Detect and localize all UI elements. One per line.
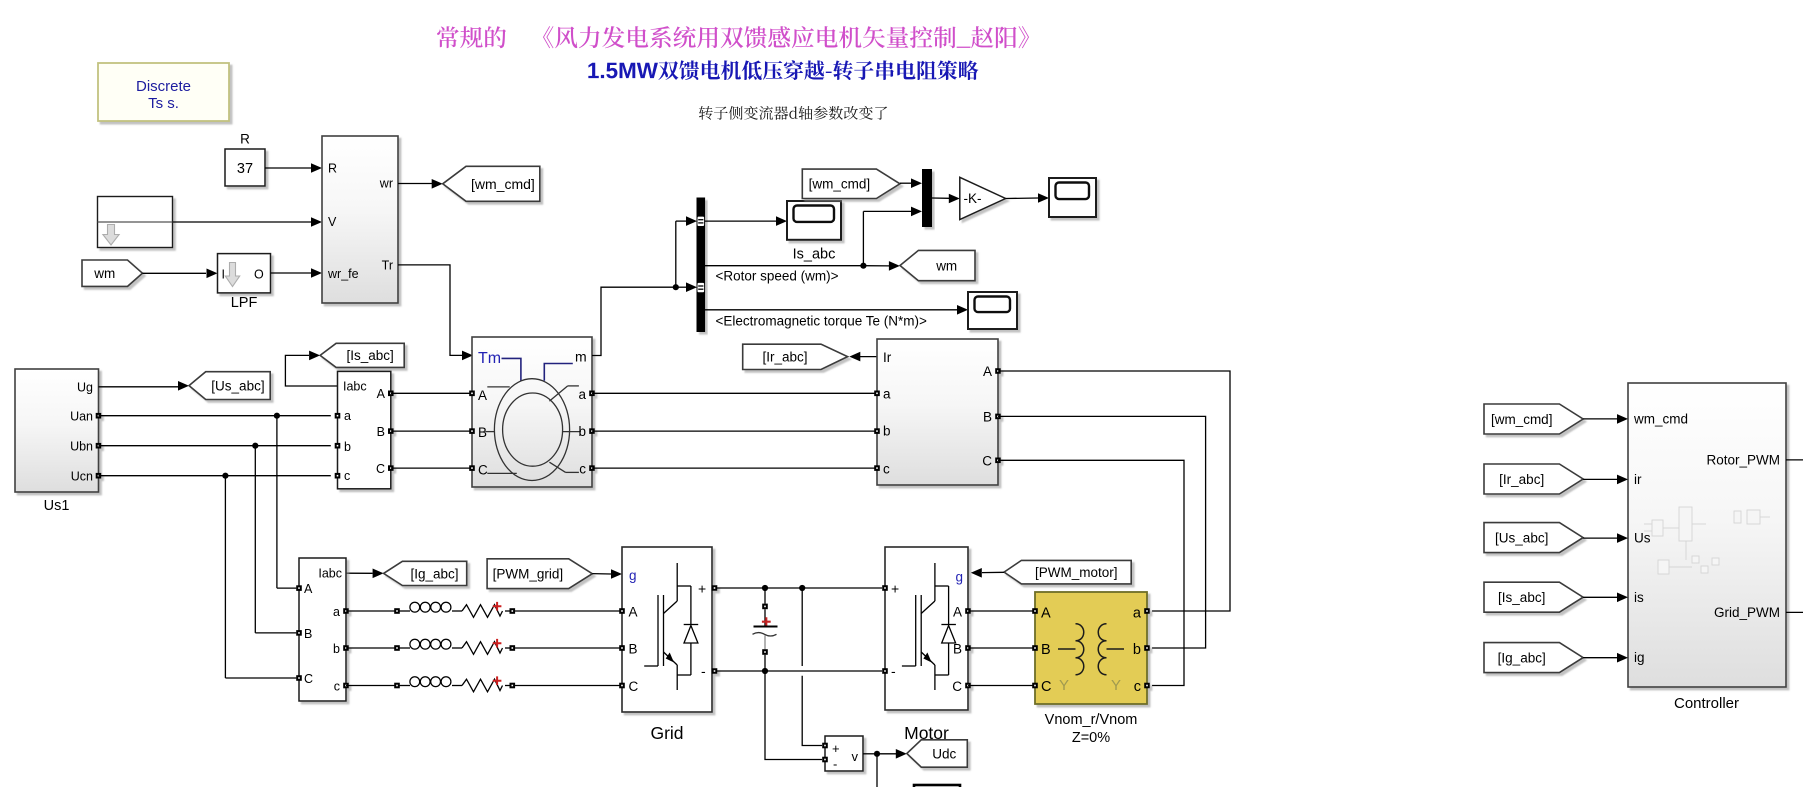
svg-text:Grid_PWM: Grid_PWM [1714, 605, 1780, 620]
wire wm_cmd to mux [900, 178, 922, 188]
svg-text:a: a [578, 387, 586, 402]
svg-text:Discrete: Discrete [136, 78, 191, 95]
svg-text:Is_abc: Is_abc [793, 247, 836, 263]
RL branch phase b (L2 R2) [346, 639, 620, 654]
block Iabc grid measurement [296, 558, 349, 701]
wire rotor c [592, 467, 877, 469]
svg-text:B: B [953, 642, 962, 657]
wind speed source block [98, 197, 173, 248]
svg-text:A: A [377, 387, 386, 401]
wire 37 to R input [265, 163, 322, 173]
title line 1 (magenta) [437, 26, 1029, 48]
transformer Vnom_r/Vnom [1032, 592, 1150, 746]
asynchronous machine block (DFIG) [469, 337, 595, 487]
svg-text:B: B [478, 425, 487, 440]
controller subsystem block [1628, 383, 1786, 712]
wire Uan phase a [99, 413, 331, 588]
label rotor speed [716, 269, 839, 284]
svg-text:Uan: Uan [70, 410, 93, 424]
svg-text:is: is [1634, 590, 1644, 605]
svg-text:C: C [376, 462, 385, 476]
svg-text:A: A [1041, 606, 1051, 622]
wire LPF to wr_fe input [271, 268, 323, 278]
svg-text:c: c [1134, 679, 1141, 695]
svg-text:b: b [578, 424, 586, 439]
wire [Ir_abc] to controller [1583, 475, 1628, 485]
svg-text:C: C [478, 462, 488, 477]
svg-text:C: C [1041, 679, 1051, 695]
svg-text:+: + [891, 581, 899, 597]
svg-text:Tr: Tr [382, 258, 393, 272]
svg-text:wr: wr [379, 177, 393, 191]
svg-text:Ucn: Ucn [71, 470, 93, 484]
svg-text:Rotor_PWM: Rotor_PWM [1706, 452, 1780, 467]
svg-text:[PWM_motor]: [PWM_motor] [1035, 565, 1118, 580]
svg-text:wr_fe: wr_fe [327, 267, 359, 281]
mux [922, 169, 932, 227]
svg-text:Grid: Grid [650, 723, 683, 743]
goto tag [Ig_abc] [384, 561, 467, 585]
svg-text:Ug: Ug [77, 381, 93, 395]
svg-text:g: g [956, 570, 964, 585]
wire rotor b [592, 430, 877, 432]
bus selector [697, 198, 706, 333]
wire stator A [391, 392, 472, 394]
wire [Is_abc] to controller [1583, 593, 1628, 603]
wire wr to goto [398, 179, 443, 189]
wire Tr to machine Tm [398, 265, 473, 360]
svg-text:wm_cmd: wm_cmd [1633, 411, 1688, 426]
from tag [PWM_motor] [1004, 560, 1131, 584]
from tag [Ir_abc] (controller input) [1484, 464, 1583, 494]
wire PWM_motor to g [971, 568, 1004, 578]
powergui block Discrete Ts s. [98, 63, 229, 121]
wire stator C [391, 467, 472, 469]
svg-text:ig: ig [1634, 650, 1645, 665]
wire stator B [391, 430, 472, 432]
from tag [Us_abc] (controller input) [1484, 523, 1583, 553]
from tag [Is_abc] (controller input) [1484, 582, 1583, 612]
svg-text:Ir: Ir [883, 350, 892, 365]
label electromagnetic torque [716, 314, 927, 329]
svg-text:Controller: Controller [1674, 695, 1739, 712]
svg-text:Udc: Udc [932, 746, 956, 761]
svg-text:B: B [629, 642, 638, 657]
svg-text:[Us_abc]: [Us_abc] [211, 378, 264, 393]
wire [Us_abc] to controller [1583, 533, 1628, 543]
svg-text:[Ig_abc]: [Ig_abc] [1498, 650, 1546, 665]
wire source to V input [173, 217, 323, 227]
gain -K- [960, 177, 1006, 219]
wire DC minus rail [717, 668, 882, 674]
svg-text:c: c [334, 679, 340, 693]
svg-text:Y: Y [1111, 677, 1121, 694]
svg-text:A: A [629, 605, 638, 620]
from tag wm (left) [82, 260, 142, 286]
svg-text:Us1: Us1 [44, 498, 70, 514]
wire motor B to transformer [968, 647, 1035, 649]
wire gain to scope [1006, 193, 1049, 203]
svg-text:[wm_cmd]: [wm_cmd] [809, 177, 871, 192]
wind turbine block [322, 136, 398, 303]
wire rotor a [592, 392, 877, 394]
wire DC plus rail [717, 585, 882, 591]
svg-text:[wm_cmd]: [wm_cmd] [471, 176, 535, 192]
block Us1 [15, 369, 101, 514]
from tag [PWM_grid] [487, 559, 592, 589]
wire Ir to goto [849, 352, 877, 362]
wire v to Udc [863, 749, 907, 787]
svg-text:A: A [304, 582, 313, 596]
wire [Ig_abc] to controller [1583, 653, 1628, 663]
svg-text:A: A [953, 605, 962, 620]
svg-text:-: - [833, 757, 837, 772]
goto tag Udc [907, 740, 968, 767]
wire Ucn phase c [99, 473, 331, 678]
wire PWM_grid to g [592, 569, 622, 579]
svg-text:[wm_cmd]: [wm_cmd] [1491, 412, 1553, 427]
svg-text:Z=0%: Z=0% [1072, 730, 1110, 746]
wire [wm_cmd] to controller [1583, 414, 1628, 424]
motor side converter block [882, 547, 971, 743]
svg-text:a: a [1133, 606, 1142, 622]
wire Ug to goto [99, 381, 190, 391]
svg-text:B: B [983, 409, 992, 424]
svg-text:C: C [304, 672, 313, 686]
wire motor A to transformer [968, 610, 1035, 612]
svg-text:R: R [240, 132, 250, 147]
goto tag [Us_abc] [189, 372, 270, 400]
svg-text:a: a [344, 409, 351, 423]
svg-text:O: O [254, 268, 264, 282]
svg-text:c: c [579, 461, 586, 476]
svg-text:[Is_abc]: [Is_abc] [347, 348, 394, 363]
svg-text:+: + [832, 741, 840, 756]
wire plus to voltmeter [802, 588, 822, 746]
powergui partial block [914, 785, 960, 787]
svg-text:b: b [883, 424, 891, 439]
svg-text:C: C [952, 679, 962, 694]
title line 2 (blue bold) [588, 60, 978, 80]
goto tag [Ir_abc] (machine) [743, 344, 848, 369]
svg-text:[Ig_abc]: [Ig_abc] [411, 566, 459, 581]
constant block 37 with label R [225, 132, 265, 187]
svg-text:wm: wm [935, 258, 957, 273]
wire Grid_PWM out [1786, 611, 1803, 613]
svg-text:B: B [1041, 642, 1051, 658]
from tag [wm_cmd] (mux) [802, 169, 900, 198]
svg-text:B: B [377, 425, 385, 439]
svg-text:-: - [701, 663, 706, 679]
svg-text:I: I [222, 268, 225, 282]
wire machine C to transformer c [998, 460, 1184, 685]
wire motor C to transformer [968, 685, 1035, 687]
svg-text:C: C [629, 679, 639, 694]
machine rotor-side block [874, 339, 1001, 485]
svg-text:Tm: Tm [478, 350, 501, 367]
svg-text:wm: wm [93, 266, 115, 281]
svg-text:v: v [852, 749, 859, 764]
svg-text:-: - [891, 663, 896, 679]
svg-text:+: + [698, 581, 706, 597]
svg-text:Vnom_r/Vnom: Vnom_r/Vnom [1045, 712, 1138, 728]
svg-text:C: C [982, 453, 992, 468]
svg-text:ir: ir [1634, 472, 1642, 487]
RL branch phase a (L1 R1) [346, 602, 620, 617]
svg-text:R: R [328, 162, 337, 176]
title line 3 (annotation) [699, 106, 887, 120]
svg-text:V: V [328, 215, 337, 229]
wire Is_abc to scope [705, 216, 787, 226]
svg-text:A: A [478, 388, 487, 403]
wire m to bus selector [592, 216, 697, 355]
svg-text:a: a [333, 605, 340, 619]
scope Te [968, 292, 1017, 329]
wire Ubn phase b [99, 443, 331, 633]
svg-text:Iabc: Iabc [318, 567, 342, 581]
wire Rotor_PWM out [1786, 459, 1803, 461]
svg-text:[PWM_grid]: [PWM_grid] [493, 567, 564, 582]
svg-text:<Electromagnetic torque Te (N*: <Electromagnetic torque Te (N*m)> [716, 314, 927, 329]
svg-text:Ts s.: Ts s. [148, 95, 179, 112]
voltage measurement block [822, 736, 863, 772]
svg-text:c: c [344, 469, 350, 483]
wire wm to LPF [142, 269, 217, 279]
goto tag wm (rotor speed) [900, 250, 975, 280]
svg-text:B: B [304, 627, 312, 641]
wire mux to gain [932, 194, 960, 204]
svg-text:Y: Y [1059, 677, 1069, 694]
svg-text:37: 37 [237, 161, 253, 177]
goto tag [Is_abc] [320, 343, 404, 367]
from tag [Ig_abc] (controller input) [1484, 643, 1583, 673]
RL branch phase c (L3 R3) [346, 676, 620, 691]
wire machine B to transformer b [998, 416, 1206, 648]
svg-text:[Us_abc]: [Us_abc] [1495, 530, 1548, 545]
goto tag [wm_cmd] (turbine) [443, 166, 540, 201]
wire Iabc measurement to goto [285, 351, 337, 386]
LPF block [218, 254, 271, 311]
svg-text:A: A [983, 364, 992, 379]
wire rotor speed [705, 207, 922, 271]
wire minus to voltmeter [765, 671, 822, 760]
from tag [wm_cmd] (controller input) [1484, 404, 1583, 434]
svg-text:a: a [883, 387, 891, 402]
svg-text:<Rotor speed (wm)>: <Rotor speed (wm)> [716, 269, 839, 284]
grid side converter block [619, 547, 717, 743]
svg-text:b: b [333, 642, 340, 656]
svg-text:[Is_abc]: [Is_abc] [1498, 590, 1545, 605]
wire torque to scope [705, 305, 968, 315]
svg-text:-K-: -K- [964, 191, 982, 206]
block Iabc stator measurement [335, 371, 394, 488]
wire machine A to transformer a [998, 371, 1230, 611]
svg-text:c: c [883, 461, 890, 476]
capacitor C1 [753, 588, 778, 671]
scope wm error [1049, 178, 1096, 217]
wire grid meas to goto [346, 569, 384, 579]
svg-text:[Ir_abc]: [Ir_abc] [762, 349, 807, 364]
svg-text:g: g [629, 568, 637, 583]
svg-text:b: b [1133, 642, 1141, 658]
svg-text:Iabc: Iabc [343, 380, 367, 394]
svg-text:[Ir_abc]: [Ir_abc] [1499, 472, 1544, 487]
svg-text:Us: Us [1634, 531, 1651, 546]
svg-text:m: m [575, 349, 587, 365]
scope Is_abc [787, 201, 841, 263]
svg-text:LPF: LPF [231, 295, 258, 311]
svg-text:b: b [344, 440, 351, 454]
svg-text:Ubn: Ubn [70, 440, 93, 454]
